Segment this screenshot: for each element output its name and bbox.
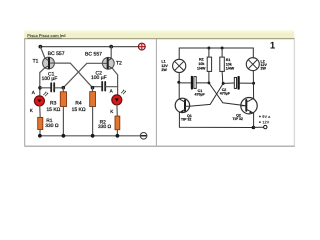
svg-text:470µF: 470µF — [195, 93, 206, 97]
node dot bottom — [252, 126, 256, 130]
wire cross B to Q1 — [189, 83, 223, 106]
wire T1 base cross — [54, 63, 92, 88]
node dot C1-left — [38, 86, 42, 90]
svg-text:330 Ω: 330 Ω — [98, 124, 112, 130]
svg-text:100 µF: 100 µF — [42, 76, 58, 82]
wire T2 collector — [113, 69, 118, 96]
resistor R2 — [115, 116, 120, 130]
label +9V +12V — [259, 116, 261, 118]
minus terminal — [140, 133, 147, 140]
svg-text:2W: 2W — [261, 67, 267, 71]
svg-text:Pisca Pisca com led: Pisca Pisca com led — [27, 33, 66, 38]
svg-text:100 µF: 100 µF — [91, 75, 107, 81]
svg-text:R4: R4 — [75, 101, 82, 107]
resistor R1 — [220, 57, 225, 71]
svg-text:2W: 2W — [161, 68, 167, 72]
node dot R1 top — [221, 47, 224, 50]
resistor R3 — [60, 92, 66, 107]
transistor T2 — [102, 57, 114, 69]
svg-text:1/4W: 1/4W — [226, 67, 235, 71]
wire R3 stub — [62, 88, 64, 92]
wire top rail — [40, 46, 138, 48]
lamp L2 — [246, 58, 259, 71]
wire cross A to Q2 — [209, 83, 246, 106]
wire Q1 emitter down and bottom rail — [179, 112, 253, 127]
node dot base1 — [62, 86, 66, 90]
wire R1 bottom — [39, 130, 41, 136]
wire to terminal — [253, 126, 263, 128]
LED D2 — [112, 95, 122, 105]
capacitor C1 — [40, 83, 63, 91]
wire T1 emitter — [40, 47, 45, 59]
capacitor C2 — [93, 82, 118, 91]
resistor R1 — [38, 117, 43, 129]
LEFT SCHEMATIC — [30, 43, 147, 139]
node dots bottom — [38, 134, 42, 138]
plus terminal — [138, 43, 145, 50]
node dot L2-C2 — [252, 82, 255, 85]
wire R2 bottom — [208, 71, 210, 83]
transistor Q1 — [175, 98, 189, 112]
wire R4 bottom — [92, 107, 94, 136]
node dot rail-T2 — [109, 45, 113, 49]
svg-text:TIP 32: TIP 32 — [181, 118, 192, 122]
wire top rail — [179, 48, 253, 59]
wire R1 bottom — [221, 71, 224, 83]
wire T2 base cross — [63, 63, 102, 87]
svg-text:12V: 12V — [262, 120, 269, 125]
wire R1 top stub — [221, 48, 223, 57]
divider — [155, 39, 157, 146]
wire LED1-R1 — [39, 106, 42, 118]
title bar — [24, 30, 294, 39]
wire bottom rail — [40, 135, 140, 137]
node dot base2 — [91, 86, 95, 90]
wire LED2-R2 — [116, 105, 118, 116]
svg-text:BC 557: BC 557 — [48, 51, 65, 57]
led2 arrows — [121, 90, 125, 94]
svg-text:T1: T1 — [33, 59, 39, 65]
node dot L1-C1 — [177, 81, 180, 84]
wire R2 top stub — [208, 48, 210, 57]
svg-text:BC 557: BC 557 — [85, 52, 102, 58]
transistor T1 — [43, 57, 55, 69]
slide white box — [24, 39, 294, 146]
wire R3 bottom — [62, 107, 64, 136]
resistor R4 — [90, 92, 96, 107]
svg-text:15 KΩ: 15 KΩ — [72, 107, 86, 113]
svg-text:1/4W: 1/4W — [197, 66, 206, 70]
wire L1 down — [178, 73, 180, 100]
lamp L1 — [173, 59, 186, 72]
capacitor C2 — [223, 77, 253, 89]
svg-text:10k: 10k — [198, 62, 204, 66]
led1 arrows — [44, 92, 48, 96]
wire Q2 emitter down — [253, 113, 255, 127]
svg-text:TIP 32: TIP 32 — [232, 117, 243, 121]
wire L2 down — [252, 71, 254, 99]
svg-text:1: 1 — [270, 40, 276, 51]
capacitor C1 — [179, 77, 209, 89]
svg-text:9V a: 9V a — [262, 114, 271, 119]
transistor Q2 — [241, 98, 257, 114]
wire R2 bottom — [116, 130, 118, 136]
resistor R2 — [207, 57, 211, 71]
wire T1 collector — [40, 68, 45, 96]
svg-text:330 Ω: 330 Ω — [45, 123, 59, 129]
svg-text:T2: T2 — [116, 61, 122, 67]
RIGHT SCHEMATIC — [161, 40, 276, 129]
svg-text:15 KΩ: 15 KΩ — [46, 107, 60, 113]
svg-text:R3: R3 — [50, 101, 57, 107]
LED D1 — [34, 96, 44, 106]
svg-text:R2: R2 — [199, 58, 204, 62]
wire T2 emitter — [110, 47, 112, 59]
wire R4 stub — [92, 88, 94, 92]
output terminal — [264, 125, 267, 128]
svg-text:470µF: 470µF — [220, 92, 231, 96]
node dot R2 top — [207, 47, 210, 50]
node dot rail-left — [39, 45, 43, 49]
